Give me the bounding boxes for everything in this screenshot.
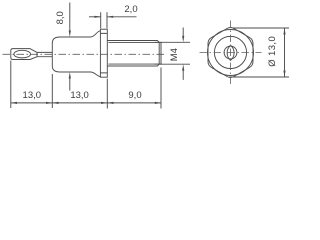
dimension 8,0 arrow bottom: [69, 72, 71, 79]
svg-text:M4: M4: [169, 48, 180, 61]
svg-text:9,0: 9,0: [128, 90, 141, 101]
dimension 2,0 line right with arrow: [107, 16, 137, 18]
flange hex side: [100, 29, 107, 77]
bottom dimension line: [11, 102, 161, 104]
front view slot: [227, 45, 234, 60]
dimension M4 arrow top: [182, 36, 184, 42]
svg-text:Ø 13,0: Ø 13,0: [267, 36, 278, 67]
svg-text:8,0: 8,0: [55, 11, 66, 24]
svg-text:13,0: 13,0: [70, 90, 89, 101]
arrow dim2 right: [101, 102, 107, 104]
dimension 2,0 extension lines: [101, 12, 107, 28]
dimension dia 13,0 extension lines: [229, 28, 289, 77]
dimension 8,0 line bottom: [69, 79, 71, 91]
dimension M4 arrow bottom: [182, 64, 184, 70]
bottom extension line body left: [51, 74, 53, 108]
dimension M4 line bottom: [182, 71, 184, 80]
stud thread root lines: [109, 42, 160, 64]
flange face lines: [100, 33, 107, 73]
arrow dim1 left: [11, 102, 17, 104]
stud end face line: [159, 42, 161, 64]
front view outer circle: [208, 30, 254, 76]
body: [52, 31, 100, 77]
dimension dia 13,0 line: [284, 28, 286, 77]
dimension 8,0 arrow top: [69, 31, 71, 38]
lug hole: [14, 50, 31, 58]
dimension dia 13,0 arrow top: [283, 28, 285, 35]
bottom extension line stud end: [160, 68, 162, 109]
dimension M4 line top: [182, 28, 184, 37]
dimension 2,0 line left with arrow: [89, 16, 101, 18]
front view stud circle: [224, 46, 237, 59]
arrow dim2 left: [52, 102, 58, 104]
dimension dia 13,0 arrow bottom: [283, 71, 285, 78]
front view horizontal centerline: [200, 52, 262, 54]
svg-text:2,0: 2,0: [124, 4, 137, 15]
centerline side view: [3, 53, 167, 55]
front view middle circle: [214, 36, 246, 68]
bottom extension line lug left: [10, 61, 12, 109]
front view vertical centerline: [230, 21, 232, 86]
arrow dim3 left: [107, 102, 113, 104]
bottom extension line flange right: [106, 79, 108, 109]
svg-text:13,0: 13,0: [23, 90, 42, 101]
dimension M4 extension lines: [155, 42, 191, 64]
lug terminal: [11, 49, 37, 60]
lead wire: [37, 52, 52, 56]
arrow dim1 right: [46, 102, 52, 104]
stud M4 outline: [107, 41, 161, 67]
arrow dim3 right: [155, 102, 161, 104]
dimension 8,0 line top: [69, 3, 71, 31]
hex nut front view hexagon: [208, 28, 253, 78]
